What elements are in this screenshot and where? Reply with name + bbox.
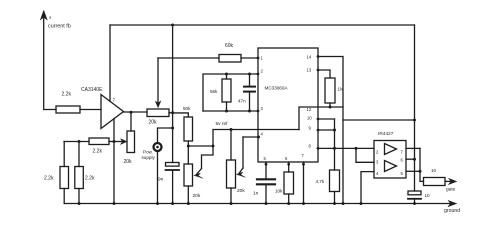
wire IC pin13 to R9 <box>318 70 330 78</box>
wire output to feedback pot <box>130 112 132 131</box>
svg-text:2.2k: 2.2k <box>85 176 95 182</box>
node top rail junction <box>171 24 174 27</box>
node pin4 junction <box>257 136 260 139</box>
potentiometer P1 20k (horizontal, top) <box>147 58 169 126</box>
node power branch junction <box>171 127 174 130</box>
wire P4 bottom to bus <box>230 188 232 204</box>
svg-text:20k: 20k <box>149 120 158 126</box>
pin 7 label <box>113 98 116 103</box>
resistor R7 56k <box>210 79 231 102</box>
label ground <box>444 208 460 214</box>
wire op-amp pin7 supply <box>109 25 111 102</box>
wire P1 right to vertical <box>169 112 173 114</box>
wire R10 bottom <box>334 192 336 204</box>
svg-text:2.2k: 2.2k <box>62 92 72 98</box>
wire IC pin8 line <box>318 147 374 149</box>
node supply link junction <box>413 119 416 122</box>
node R2 left junction <box>78 140 81 143</box>
node IC pin dots <box>257 55 320 166</box>
connector J1 power supply <box>142 143 162 160</box>
wire C4 to bus <box>414 199 416 204</box>
svg-text:20k: 20k <box>124 159 133 165</box>
potentiometer P3 20k <box>184 146 213 199</box>
wire IC pin3 line <box>203 110 258 112</box>
svg-text:47n: 47n <box>238 99 246 104</box>
node pin9 junction <box>333 129 336 132</box>
node pin5 junction <box>419 170 422 173</box>
wire 60k to IC pin1 <box>241 57 258 59</box>
ground arrow <box>448 200 457 206</box>
wire IC pin7 to bus <box>303 162 305 204</box>
resistor R9 1M <box>325 78 344 103</box>
wire P4 top to 5vref <box>230 130 232 161</box>
node R9 junction <box>329 106 332 109</box>
svg-text:CA3140E: CA3140E <box>81 87 103 93</box>
node P1/Rb junction <box>171 111 174 114</box>
driver U3 IR4427 <box>374 131 406 178</box>
svg-text:10: 10 <box>307 116 312 121</box>
wire driver pin3 input jog <box>356 148 374 162</box>
wire supply link y120 <box>343 119 415 121</box>
wire R4 top <box>63 142 65 167</box>
wire IC pin4 stub <box>243 136 259 138</box>
wire P3 bottom to bus <box>187 186 189 204</box>
node bus junctions <box>78 202 417 205</box>
wire C1 to ground bus <box>172 171 174 204</box>
capacitor C4 10 <box>408 191 430 199</box>
wire driver pin5 output <box>406 170 420 172</box>
wire R8 to bus <box>288 194 290 204</box>
IC U2 MC33060A <box>258 48 343 162</box>
svg-text:14: 14 <box>307 55 312 60</box>
wire connector to ground bus <box>157 152 159 204</box>
wire IC pin10 <box>318 118 335 120</box>
svg-text:current fb: current fb <box>48 24 71 30</box>
node 5vref corner junction <box>212 145 215 148</box>
wire top supply rail <box>110 24 415 26</box>
node pin6 junction <box>413 158 416 161</box>
wire C3 to bus <box>265 186 267 204</box>
wire R4 bottom to bus <box>63 189 65 204</box>
resistor R3 60k <box>219 43 241 62</box>
wire R5 bottom to bus <box>78 189 80 204</box>
svg-text:MC33060A: MC33060A <box>265 86 289 91</box>
svg-text:supply: supply <box>142 155 156 160</box>
svg-text:ground: ground <box>444 208 460 214</box>
wire op-amp output <box>124 111 148 113</box>
wire R2 to feedback pot wiper <box>109 139 127 145</box>
wire driver pin7 output <box>406 147 420 149</box>
resistor R10 4.7k <box>316 170 340 192</box>
node current-fb arrow <box>40 11 56 110</box>
potentiometer P4 20k <box>227 137 246 194</box>
wire C2 bottom <box>249 93 251 111</box>
svg-text:10: 10 <box>431 168 437 173</box>
svg-text:1n: 1n <box>253 191 259 197</box>
wire R5 top <box>78 142 80 167</box>
node R6/P3 junction <box>187 145 190 148</box>
buffer A <box>385 144 397 155</box>
svg-text:10k: 10k <box>275 189 283 194</box>
label 5v ref <box>216 121 229 127</box>
wire 5v ref line <box>188 130 299 147</box>
resistor R8 10k <box>275 172 294 194</box>
wire power supply branch <box>158 128 173 143</box>
wire R7 bottom <box>226 102 228 111</box>
wire R7 top <box>226 74 228 79</box>
svg-text:13: 13 <box>307 68 312 73</box>
label current fb <box>48 15 71 30</box>
capacitor C2 47n <box>238 87 255 104</box>
wire R2 left node <box>64 141 89 143</box>
wire IC pin9 <box>318 129 335 131</box>
resistor R11 10 (gate) <box>424 168 446 186</box>
resistor R5 2.2k (right) <box>75 167 95 189</box>
resistor R6 50k <box>183 106 193 141</box>
svg-text:2.2k: 2.2k <box>93 149 103 155</box>
node op-amp output junction <box>130 111 133 114</box>
wire gate output arrow <box>445 178 457 192</box>
wire R1 to op-amp <box>80 109 101 111</box>
wire IC pin5 to C3 <box>265 162 267 178</box>
svg-text:10: 10 <box>425 193 431 198</box>
buffer B <box>385 161 397 172</box>
svg-text:60k: 60k <box>225 43 234 49</box>
wire driver pin4 to ground <box>361 172 374 204</box>
wire R10 top <box>334 148 336 170</box>
svg-text:4.7k: 4.7k <box>316 179 325 184</box>
wire IC pin14 <box>318 57 343 204</box>
wire right supply drop <box>414 25 416 191</box>
wire IC pin6 to R8 <box>288 162 290 172</box>
resistor R4 2.2k (left) <box>44 167 69 189</box>
wire P1 wiper feed from pin1 line <box>158 57 219 59</box>
ground bus wire <box>64 203 451 205</box>
svg-text:1M: 1M <box>338 87 345 92</box>
wire vertical rail x172 <box>172 25 174 163</box>
svg-text:56k: 56k <box>210 89 218 94</box>
svg-text:IR4427: IR4427 <box>378 131 394 137</box>
resistor R2 2.2k <box>89 138 109 155</box>
svg-text:Pow.: Pow. <box>143 150 153 155</box>
svg-text:5v ref: 5v ref <box>216 121 229 127</box>
node R7 junctions <box>225 73 228 76</box>
svg-text:gate: gate <box>446 187 456 193</box>
svg-text:50k: 50k <box>183 106 191 111</box>
wire op-amp inverting input to ground <box>113 119 115 204</box>
potentiometer P2 20k (feedback) <box>124 131 135 165</box>
wire R6 bottom node <box>187 141 189 164</box>
node inverting input junction <box>113 140 116 143</box>
svg-text:2.2k: 2.2k <box>44 176 54 182</box>
node driver input junction <box>355 147 358 150</box>
wire driver pin6 supply <box>406 158 415 160</box>
wire C2 top <box>249 74 251 86</box>
resistor R1 2.2k <box>56 92 80 114</box>
svg-text:9n: 9n <box>158 177 164 183</box>
node C2 junctions <box>248 73 251 76</box>
op-amp U1 CA3140E <box>81 87 124 129</box>
svg-text:12: 12 <box>307 107 312 112</box>
svg-text:20k: 20k <box>193 193 201 199</box>
svg-text:20k: 20k <box>237 188 245 194</box>
capacitor C3 1n <box>253 179 275 196</box>
wire output tie <box>420 148 424 181</box>
wire IC pin2 loop <box>203 74 258 111</box>
wire R6 top to P1 node <box>173 113 189 117</box>
capacitor C1 9n <box>158 163 179 183</box>
node pin10 tie to pin8 line <box>333 147 336 150</box>
wire pin10-pin9 tie <box>334 119 336 148</box>
wire R9 bottom <box>329 103 331 107</box>
node P4 top junction <box>230 128 233 131</box>
